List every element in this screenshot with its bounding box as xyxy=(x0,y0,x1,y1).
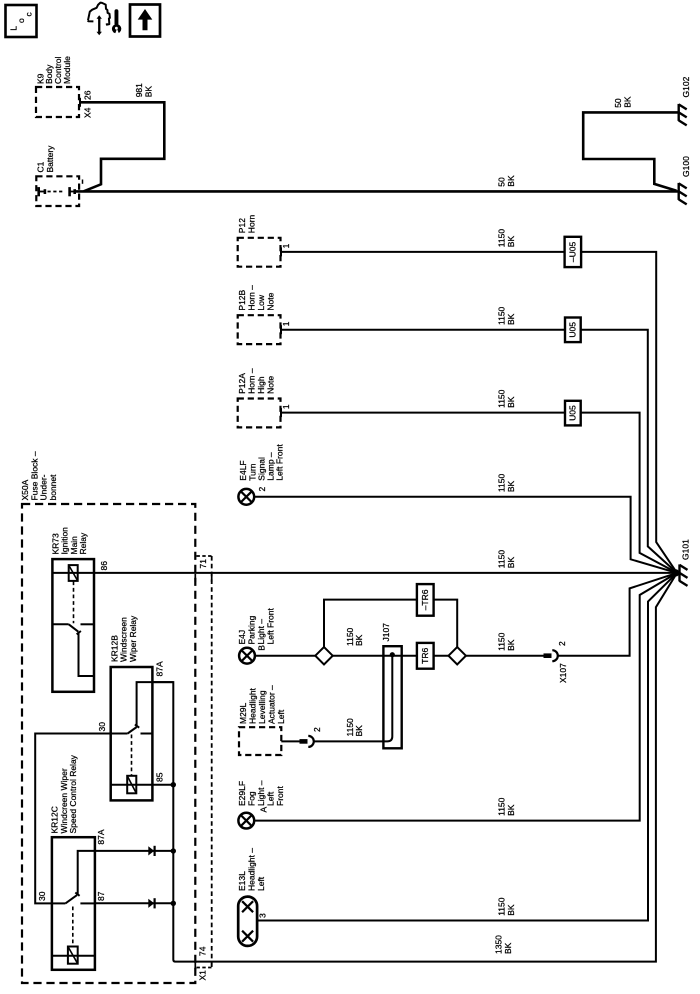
svg-text:Parking: Parking xyxy=(247,615,257,644)
wire label 1150 BK (M29L) xyxy=(345,718,364,737)
fuse block X50A dashed outline xyxy=(20,451,195,983)
pin 26 X4 of K9 xyxy=(80,90,93,118)
svg-text:2: 2 xyxy=(557,641,567,646)
battery cell symbols xyxy=(39,187,75,196)
relay KR12C Windcreen Wiper Speed Control Relay xyxy=(50,754,95,969)
splice diamond S1 xyxy=(315,647,332,664)
pin 1 of P12 xyxy=(281,243,291,256)
coil of KR73 xyxy=(69,565,78,623)
horn P12B xyxy=(237,285,281,344)
wire E13L to G101 xyxy=(257,573,677,921)
vehicle service icon xyxy=(88,3,110,25)
svg-text:P12: P12 xyxy=(237,218,247,233)
svg-text:M29L: M29L xyxy=(238,702,248,724)
wire 50 BK battery negative to G100 xyxy=(75,175,678,191)
internal wire of J107 xyxy=(314,655,392,742)
wire 1150 BK KR73 86 to G101 xyxy=(52,550,677,573)
svg-text:50: 50 xyxy=(613,98,623,108)
svg-text:1350: 1350 xyxy=(494,935,504,954)
svg-text:Light –: Light – xyxy=(256,780,266,806)
svg-text:G101: G101 xyxy=(681,539,691,560)
svg-text:BK: BK xyxy=(144,86,154,98)
ground G101 junction blob xyxy=(672,569,679,576)
svg-text:1: 1 xyxy=(281,404,291,409)
svg-text:Wiper Relay: Wiper Relay xyxy=(128,615,138,662)
ground G100 xyxy=(679,156,691,204)
svg-text:Levelling: Levelling xyxy=(257,690,267,724)
svg-text:Headlight –: Headlight – xyxy=(247,848,257,891)
svg-text:G100: G100 xyxy=(681,156,691,177)
switch of KR12B xyxy=(111,682,174,733)
inline connector -TR6 xyxy=(417,584,434,616)
svg-text:Left: Left xyxy=(266,791,276,806)
svg-text:Headlight: Headlight xyxy=(248,687,258,724)
horn P12A xyxy=(237,368,281,427)
wire KR12B 85 to junction xyxy=(111,784,174,786)
headlight E13L Left xyxy=(237,848,266,946)
svg-text:U05: U05 xyxy=(568,322,578,338)
svg-text:85: 85 xyxy=(155,772,165,782)
inline connector U05 (P12B) xyxy=(565,318,581,343)
svg-text:Actuator –: Actuator – xyxy=(267,685,277,724)
wire label 1350 BK xyxy=(494,935,514,954)
wire 1150 BK P12B to G101 xyxy=(281,306,677,572)
svg-text:TR6: TR6 xyxy=(420,648,430,664)
connector strip X1 of fuse block xyxy=(197,556,212,981)
svg-text:3: 3 xyxy=(258,913,268,918)
splice diamond S2 xyxy=(449,647,466,664)
svg-text:Left: Left xyxy=(256,876,266,891)
svg-text:BK: BK xyxy=(506,557,516,569)
svg-text:BK: BK xyxy=(506,236,516,248)
svg-text:BK: BK xyxy=(354,634,364,646)
pin ticks at X1 for 86 wire xyxy=(195,574,211,582)
svg-text:Relay: Relay xyxy=(78,532,88,554)
svg-text:981: 981 xyxy=(134,83,144,97)
switch of KR12C xyxy=(52,851,95,904)
svg-text:1: 1 xyxy=(281,243,291,248)
svg-text:87: 87 xyxy=(96,891,106,901)
svg-text:Horn –: Horn – xyxy=(247,368,257,394)
wire KR12C 87 through diode to junction xyxy=(95,902,173,904)
junction dot diode D1 xyxy=(171,848,176,853)
connector X107 xyxy=(544,641,569,683)
pin 1 of P12A xyxy=(281,404,291,417)
svg-text:E4LF: E4LF xyxy=(238,460,248,480)
svg-text:86: 86 xyxy=(99,561,109,571)
wrench of icon xyxy=(112,9,121,34)
svg-text:Module: Module xyxy=(62,56,72,84)
svg-text:–U05: –U05 xyxy=(568,241,578,262)
svg-text:P12A: P12A xyxy=(237,373,247,394)
junction dot 85 xyxy=(171,782,176,787)
svg-text:2: 2 xyxy=(312,727,322,732)
svg-text:74: 74 xyxy=(198,946,208,956)
svg-text:U05: U05 xyxy=(568,405,578,421)
relay KR12B Windscreen Wiper Relay xyxy=(109,615,152,800)
wire 1150 BK E4LF to G101 xyxy=(254,474,677,573)
svg-text:BK: BK xyxy=(506,480,516,492)
svg-text:BK: BK xyxy=(506,175,516,187)
svg-text:Fog: Fog xyxy=(247,791,257,806)
wire 1150 BK P12A to G101 xyxy=(281,389,677,573)
diode D1 xyxy=(148,846,154,856)
svg-text:BK: BK xyxy=(506,904,516,916)
pin ticks at X1 for 1350 wire xyxy=(195,963,211,971)
svg-text:BK: BK xyxy=(503,942,513,954)
svg-text:bonnet: bonnet xyxy=(48,474,58,501)
wire E29LF to G101 xyxy=(254,573,677,821)
svg-text:BK: BK xyxy=(506,396,516,408)
svg-text:Front: Front xyxy=(275,786,285,806)
wire 50 BK pigtail to G102 xyxy=(583,96,677,191)
svg-text:A: A xyxy=(259,807,269,813)
svg-text:Note: Note xyxy=(266,376,276,394)
svg-text:X4: X4 xyxy=(83,107,93,118)
svg-text:Battery: Battery xyxy=(45,145,55,173)
svg-text:o: o xyxy=(16,18,26,23)
svg-text:High: High xyxy=(256,376,266,394)
inline connector -U05 xyxy=(565,237,582,267)
svg-text:Left: Left xyxy=(276,709,286,724)
wire 981 BK from K9 to battery xyxy=(79,83,164,191)
svg-text:50: 50 xyxy=(497,177,507,187)
wire 87A junction column to 1350 BK wire xyxy=(152,573,677,962)
junction dot diode D2 xyxy=(171,901,176,906)
wire label 1150 BK (E4J to J107) xyxy=(345,627,364,646)
branch wire to -TR6 loop xyxy=(324,600,457,648)
junction dot J107 xyxy=(390,652,395,657)
lamp E4J Parking Light Left Front xyxy=(237,607,276,663)
module M29L Headlight Levelling Actuator Left xyxy=(238,685,286,755)
svg-text:X1: X1 xyxy=(198,970,208,981)
ground G102 xyxy=(679,76,691,125)
svg-text:E13L: E13L xyxy=(237,871,247,891)
svg-text:BK: BK xyxy=(354,725,364,737)
svg-text:Horn: Horn xyxy=(247,215,257,234)
pin 1 of P12B xyxy=(281,321,291,334)
pin 2 of M29L and inline connector xyxy=(281,727,322,747)
svg-text:Left Front: Left Front xyxy=(275,444,285,481)
svg-text:B: B xyxy=(256,645,266,651)
svg-text:BK: BK xyxy=(623,96,633,108)
wire E4J to X107 xyxy=(255,655,544,657)
svg-text:E29LF: E29LF xyxy=(237,781,247,806)
svg-text:E4J: E4J xyxy=(237,630,247,645)
inline connector TR6 xyxy=(417,643,434,669)
svg-text:2: 2 xyxy=(257,487,267,492)
svg-text:P12B: P12B xyxy=(237,289,247,310)
svg-text:26: 26 xyxy=(83,90,93,100)
svg-text:–TR6: –TR6 xyxy=(420,589,430,610)
LOC icon box xyxy=(6,5,37,37)
wire KR12C 87A through diode to junction xyxy=(95,850,173,852)
double arrow of icon xyxy=(97,15,102,35)
minus polarity mark xyxy=(82,180,84,184)
svg-text:Left Front: Left Front xyxy=(266,607,276,644)
svg-text:X107: X107 xyxy=(558,663,568,683)
diode D2 xyxy=(148,898,154,908)
battery C1 xyxy=(36,145,80,206)
svg-text:Low: Low xyxy=(256,294,266,310)
module K9 Body Control Module xyxy=(35,56,79,117)
wire KR12B 30 to KR12C 30 xyxy=(35,734,111,904)
lamp E29LF Fog Light Left Front xyxy=(237,780,285,828)
svg-text:BK: BK xyxy=(506,639,516,651)
inline connector U05 (P12A) xyxy=(565,401,581,426)
lamp E4LF Turn Signal Lamp Left Front xyxy=(238,444,285,505)
svg-text:1: 1 xyxy=(281,321,291,326)
horn P12 xyxy=(237,215,281,267)
relay KR73 Ignition Main Relay xyxy=(51,527,95,692)
svg-text:c: c xyxy=(23,12,33,17)
svg-text:Horn –: Horn – xyxy=(247,285,257,311)
svg-text:L: L xyxy=(9,26,19,31)
wire X107 to G101 xyxy=(497,573,677,656)
svg-text:87A: 87A xyxy=(96,829,106,844)
svg-text:30: 30 xyxy=(97,722,107,732)
switch of KR73 xyxy=(52,624,94,676)
svg-text:71: 71 xyxy=(198,559,208,569)
svg-text:BK: BK xyxy=(506,804,516,816)
svg-text:30: 30 xyxy=(37,891,47,901)
up-arrow icon box xyxy=(130,5,160,37)
svg-text:J107: J107 xyxy=(381,623,391,642)
svg-text:Note: Note xyxy=(266,292,276,310)
wire 1150 BK P12 to G101 xyxy=(281,229,677,573)
splice pack J107 xyxy=(381,623,402,749)
svg-text:87A: 87A xyxy=(155,661,165,676)
svg-text:BK: BK xyxy=(506,313,516,325)
svg-text:Speed Control Relay: Speed Control Relay xyxy=(68,754,78,833)
svg-text:G102: G102 xyxy=(681,76,691,97)
coil of KR12B xyxy=(127,735,136,794)
coil of KR12C xyxy=(52,907,95,964)
svg-text:Light –: Light – xyxy=(256,619,266,645)
ground G101 xyxy=(680,539,691,586)
